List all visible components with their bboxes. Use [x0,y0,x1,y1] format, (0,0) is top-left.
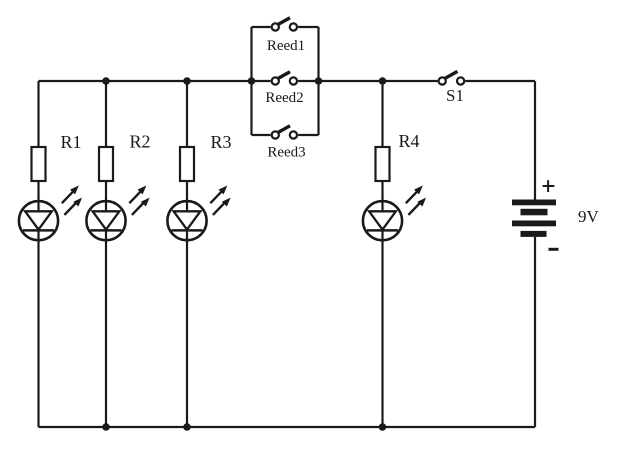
wire: main rail from S1 to top-right corner [465,80,535,82]
svg-text:R4: R4 [398,131,419,151]
wire: Reed2 main left stub [252,80,271,82]
svg-text:R1: R1 [60,132,81,152]
LED D4 [363,186,426,241]
node: junction main rail / reed box right [315,77,323,85]
node: junction top rail / branch 3 [183,77,191,85]
node: junction main rail / branch 4 [379,77,387,85]
node: junction main rail / reed box left [248,77,256,85]
wire: right rail lower (from battery -) [534,237,536,427]
wire: reed box left vertical [250,27,252,135]
wire: branch 3 vertical (R3/LED column) [186,81,188,427]
wire: bottom rail [39,426,536,428]
switch S1 [439,71,465,84]
LED D1 [19,186,82,241]
wire: top rail left segment [39,80,252,82]
switch Reed1 [272,18,297,31]
node: junction bottom rail / branch 3 [183,423,191,431]
wire: branch 2 vertical (R2/LED column) [105,81,107,427]
wire: Reed2 main right stub [298,80,318,82]
resistor R1 [32,147,46,181]
wire: main rail from reed box to S1 [319,80,438,82]
battery BT1 plate 4 (short, -) [521,231,547,237]
svg-text:Reed1: Reed1 [267,38,305,54]
wire: reed box right vertical [317,27,319,135]
node: junction top rail / branch 2 [102,77,110,85]
wire: Reed3 branch right stub [298,134,318,136]
switch Reed2 [272,72,297,85]
wire: branch 1 vertical (R1/LED column) [37,81,39,427]
node: junction bottom rail / branch 4 [379,423,387,431]
battery - terminal mark [549,248,559,251]
svg-text:Reed2: Reed2 [265,90,303,106]
battery BT1 plate 2 (short) [521,209,548,216]
wire: Reed1 branch left stub [252,26,271,28]
svg-text:S1: S1 [446,86,464,105]
wire: Reed1 branch right stub [298,26,318,28]
svg-text:Reed3: Reed3 [267,145,305,161]
resistor R3 [180,147,194,181]
wire: branch 4 vertical (R4/LED column) [381,81,383,427]
node: junction bottom rail / branch 2 [102,423,110,431]
svg-text:R3: R3 [210,132,231,152]
battery + terminal mark [543,180,555,192]
battery BT1 plate 1 (long, +) [512,200,556,206]
battery BT1 plate 3 (long) [512,221,556,227]
LED D2 [86,186,149,241]
switch Reed3 [272,126,297,139]
wire: Reed3 branch left stub [252,134,271,136]
resistor R2 [99,147,113,181]
resistor R4 [376,147,390,181]
svg-text:R2: R2 [129,132,150,152]
wire: right rail upper (to battery +) [534,81,536,200]
LED D3 [167,186,230,241]
svg-text:9V: 9V [578,207,600,226]
